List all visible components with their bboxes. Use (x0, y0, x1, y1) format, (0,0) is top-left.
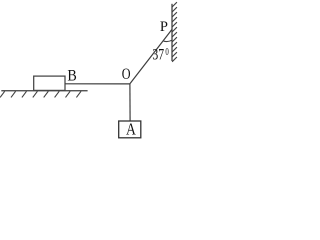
box A (119, 121, 141, 138)
wall hatch 7 (172, 32, 177, 37)
wire rope O to P (130, 30, 172, 84)
wall hatch 10 (172, 47, 177, 52)
ground hatch 8 (76, 91, 81, 97)
ground hatch 2 (11, 91, 16, 97)
wall (171, 4, 173, 61)
wall hatch 2 (172, 7, 177, 12)
wall hatch 6 (172, 27, 177, 32)
wall hatch 8 (172, 37, 177, 42)
wall hatch 4 (172, 17, 177, 22)
wall hatch 9 (172, 42, 177, 47)
wall hatch 12 (172, 57, 177, 62)
svg-text:A: A (126, 120, 136, 139)
wire rope B to O (65, 83, 130, 85)
wall hatch 11 (172, 52, 177, 57)
wall hatch 5 (172, 22, 177, 27)
svg-text:37: 37 (152, 46, 164, 63)
svg-text:B: B (67, 68, 76, 85)
ground hatch 3 (22, 91, 27, 97)
svg-text:0: 0 (165, 47, 168, 58)
svg-text:P: P (160, 19, 168, 35)
ground hatch 1 (0, 91, 5, 97)
ground hatch 7 (66, 91, 71, 97)
svg-text:O: O (122, 66, 131, 83)
wall hatch 1 (172, 2, 177, 7)
wire rope O to A (129, 84, 131, 121)
ground hatch 6 (55, 91, 60, 97)
wall hatch 3 (172, 12, 177, 17)
block B (34, 76, 65, 90)
angle arc at P (163, 40, 172, 41)
ground line (1, 90, 87, 92)
ground hatch 4 (33, 91, 38, 97)
ground hatch 5 (44, 91, 49, 97)
